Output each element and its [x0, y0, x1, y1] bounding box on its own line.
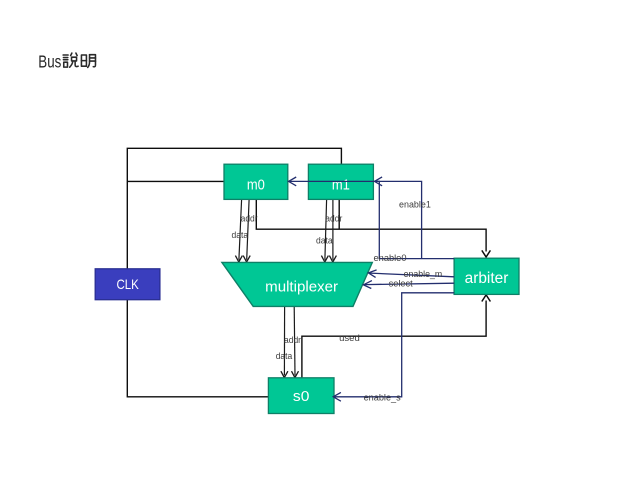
- svg-text:data: data: [276, 351, 293, 362]
- wire request from m0/m1 bottom pins to arbiter top: [256, 199, 490, 257]
- svg-text:addr: addr: [284, 335, 301, 346]
- wire m0 addr to multiplexer: [235, 199, 242, 262]
- wire m1 data to multiplexer: [329, 199, 336, 262]
- wire enable1 from arbiter to m1 right edge: [375, 177, 422, 259]
- svg-text:enable_s: enable_s: [364, 393, 401, 404]
- wire used from s0 top to arbiter bottom: [302, 295, 491, 378]
- wire select from arbiter to multiplexer right edge: [363, 281, 454, 289]
- svg-text:data: data: [232, 230, 249, 241]
- wire enable0 from arbiter to m0 right edge: [289, 177, 455, 259]
- svg-text:used: used: [339, 333, 360, 344]
- wire enable_s from arbiter bottom-left to s0 right edge: [333, 293, 454, 401]
- svg-text:s0: s0: [293, 389, 310, 405]
- title glyph 明: [81, 55, 95, 68]
- wire enable_m from arbiter to multiplexer right edge: [368, 270, 454, 278]
- block m1: [308, 164, 373, 199]
- wire multiplexer data to s0: [292, 306, 299, 377]
- block arbiter: [454, 258, 519, 294]
- wire m1 addr to multiplexer: [321, 199, 328, 262]
- svg-text:enable0: enable0: [374, 253, 407, 264]
- svg-text:data: data: [316, 236, 333, 247]
- wire m0 data to multiplexer: [243, 199, 250, 262]
- wire multiplexer addr to s0: [281, 306, 288, 377]
- svg-text:arbiter: arbiter: [465, 270, 509, 287]
- svg-text:addr: addr: [241, 213, 258, 224]
- title glyph 說: [63, 53, 78, 67]
- CLK source: [95, 269, 160, 300]
- svg-text:select: select: [389, 278, 413, 289]
- block m0: [224, 164, 288, 199]
- svg-text:enable1: enable1: [399, 200, 431, 211]
- svg-text:Bus: Bus: [38, 51, 61, 71]
- wire clock branch to m0 left: [127, 180, 224, 182]
- svg-text:multiplexer: multiplexer: [265, 279, 338, 295]
- svg-text:CLK: CLK: [116, 276, 139, 292]
- block s0: [268, 378, 334, 414]
- svg-text:m1: m1: [332, 178, 350, 194]
- multiplexer U1 (trapezoid): [222, 262, 372, 306]
- svg-text:addr: addr: [325, 213, 342, 224]
- svg-text:m0: m0: [247, 178, 265, 194]
- wire clock net: m1 top, top rail, left rail down to s0 left: [127, 148, 341, 396]
